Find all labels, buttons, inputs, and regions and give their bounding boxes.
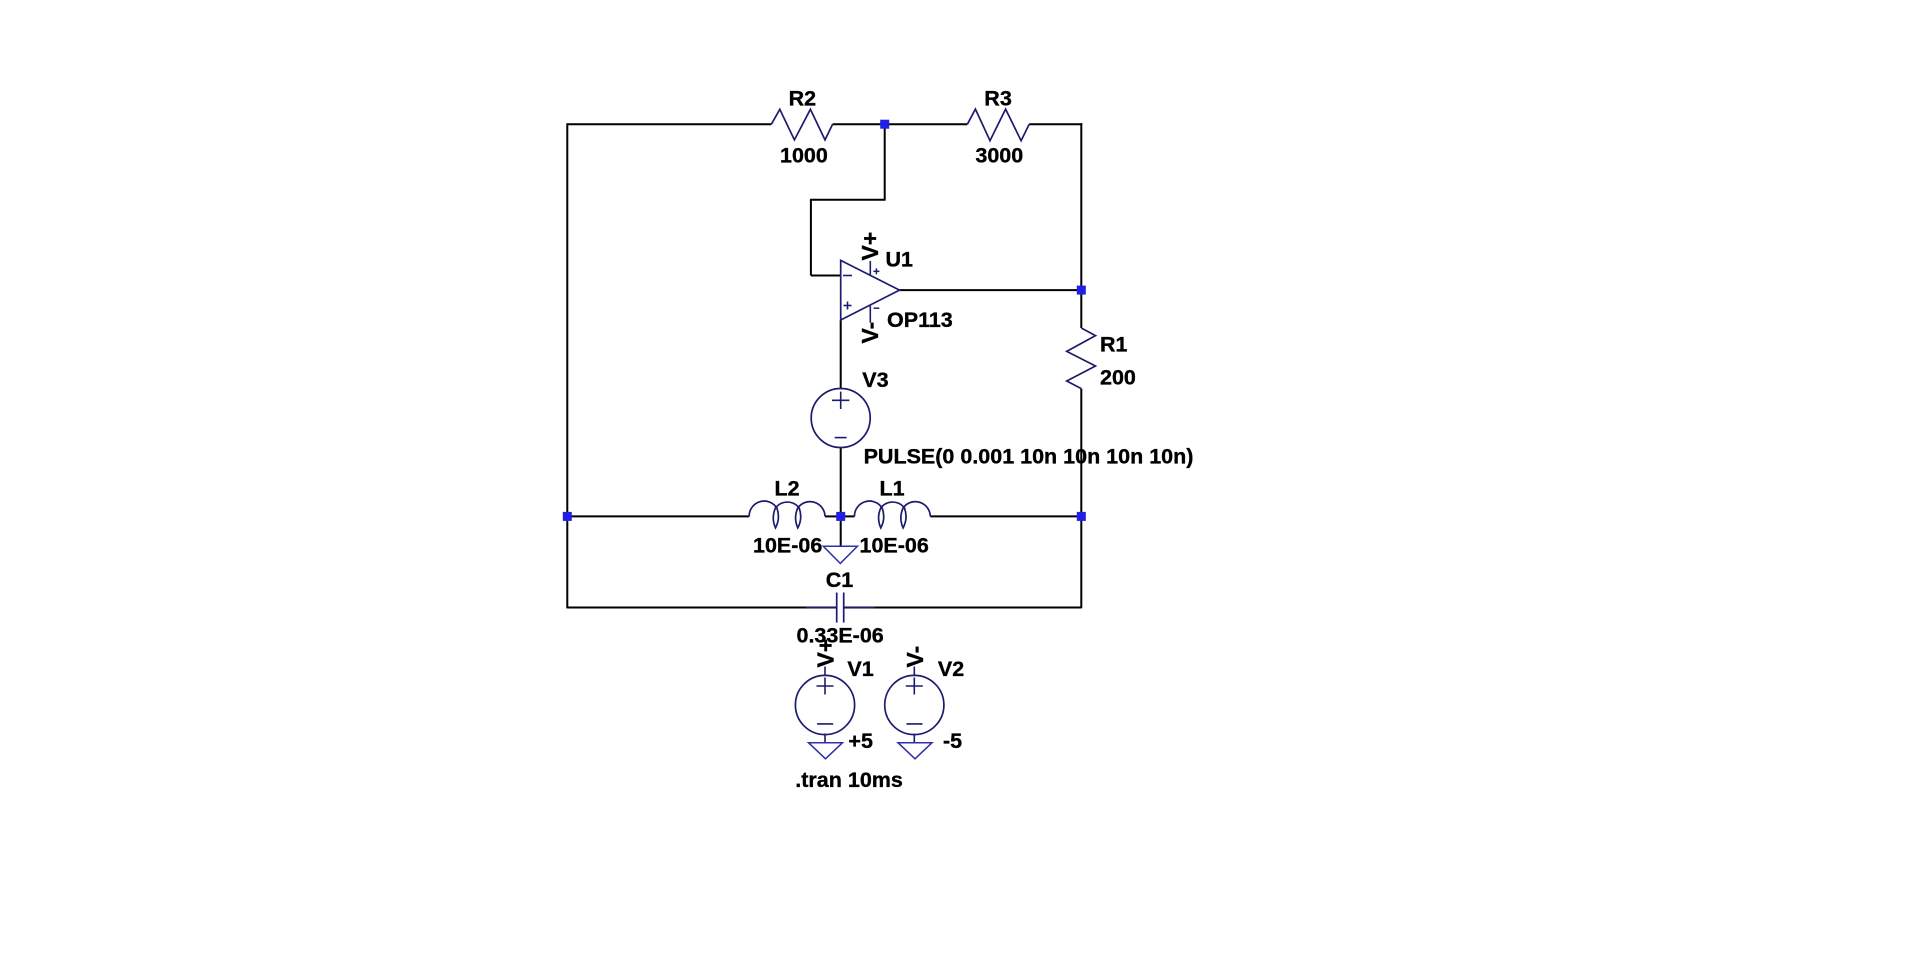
value -5 of V2 (943, 729, 962, 753)
label V+ rotated at V1 (813, 639, 839, 668)
svg-text:R1: R1 (1100, 332, 1128, 356)
svg-text:-5: -5 (943, 729, 962, 753)
V2 minus marker (906, 723, 922, 725)
value PULSE of V3 (864, 445, 1194, 469)
svg-text:V2: V2 (938, 657, 964, 681)
wire L1 to right rail (930, 515, 1081, 517)
resistor R3 (967, 109, 1029, 141)
label OP113 (887, 308, 953, 332)
wire inverting input vertical (810, 199, 812, 276)
wire inverting input horizontal into U1 (811, 275, 841, 277)
capacitor C1 left lead (806, 607, 837, 609)
label R2 (789, 86, 817, 110)
op-amp U1 triangle (841, 260, 900, 320)
capacitor C1 right lead (844, 607, 875, 609)
wire op-amp output to node B (900, 289, 1082, 291)
V1 plus marker (817, 678, 834, 695)
wire right vertical upper (1080, 123, 1082, 328)
label C1 (826, 568, 854, 592)
svg-text:L1: L1 (880, 477, 905, 501)
node B junction output-R1 (1077, 286, 1086, 295)
capacitor C1 plates (837, 593, 844, 623)
value 1000 of R2 (780, 144, 828, 168)
svg-text:U1: U1 (886, 248, 914, 272)
label L1 (880, 477, 905, 501)
svg-text:+5: +5 (848, 729, 873, 753)
V2 top pin (913, 667, 915, 677)
label V2 (938, 657, 964, 681)
voltage source V2 circle (885, 675, 944, 734)
wire top rail left segment (567, 123, 771, 125)
svg-text:V+: V+ (813, 639, 839, 668)
svg-text:3000: 3000 (975, 144, 1023, 168)
svg-text:V1: V1 (847, 657, 873, 681)
V3 minus marker (835, 437, 847, 439)
svg-text:200: 200 (1100, 366, 1136, 390)
spice directive .tran 10ms (795, 768, 903, 792)
voltage source V1 circle (795, 675, 854, 734)
wire bottom rail left of C1 (567, 607, 836, 609)
voltage source V3 circle (811, 389, 870, 448)
op-amp U1 non-inverting input marker (844, 302, 852, 310)
svg-text:V-: V- (857, 322, 883, 344)
wire V3 bottom to ground junction (840, 447, 842, 546)
label R3 (984, 86, 1012, 110)
V2 bottom pin (913, 734, 915, 743)
wire top rail middle segment (833, 123, 968, 125)
value 10E-06 of L2 (753, 534, 822, 558)
svg-text:V+: V+ (857, 232, 883, 261)
V1 minus marker (817, 723, 833, 725)
V1 top pin (824, 667, 826, 677)
op-amp U1 V- pin minus marker (874, 307, 880, 309)
svg-text:PULSE(0 0.001 10n 10n 10n 10n): PULSE(0 0.001 10n 10n 10n 10n) (864, 445, 1194, 469)
label V- rotated at U1 (857, 322, 883, 344)
wire U1 +input down to V3 (840, 320, 842, 389)
ground symbol under V1 (809, 743, 843, 759)
label V3 (862, 368, 888, 392)
value 200 of R1 (1100, 366, 1136, 390)
node D junction left rail-L2 (563, 512, 572, 521)
value 3000 of R3 (975, 144, 1023, 168)
node C junction L2-L1-V3-ground (836, 512, 845, 521)
V1 bottom pin (824, 734, 826, 743)
svg-text:R3: R3 (984, 86, 1012, 110)
node A junction R2-R3-feedback (880, 120, 889, 129)
V3 plus marker (832, 392, 849, 409)
op-amp U1 V- power pin (869, 306, 871, 323)
value 10E-06 of L1 (860, 534, 929, 558)
ground symbol under V2 (898, 743, 932, 759)
op-amp U1 V+ pin plus marker (873, 268, 879, 274)
svg-text:10E-06: 10E-06 (753, 534, 822, 558)
svg-text:L2: L2 (775, 477, 800, 501)
wire inverting feedback vertical from node A (884, 124, 886, 200)
wire left vertical rail (566, 123, 568, 608)
inductor L2 (749, 501, 825, 528)
label R1 (1100, 332, 1128, 356)
wire L2 to node C (825, 515, 841, 517)
value 0.33E-06 of C1 (797, 624, 884, 648)
svg-text:C1: C1 (826, 568, 854, 592)
label L2 (775, 477, 800, 501)
label U1 (886, 248, 914, 272)
svg-text:10E-06: 10E-06 (860, 534, 929, 558)
op-amp U1 V+ power pin (869, 261, 871, 275)
inductor L1 (854, 501, 930, 528)
V2 plus marker (906, 678, 923, 695)
wire middle rail left segment (567, 515, 749, 517)
svg-text:R2: R2 (789, 86, 817, 110)
wire top rail right segment (1029, 123, 1082, 125)
wire inverting feedback horizontal (811, 199, 886, 201)
op-amp U1 inverting input marker (843, 275, 852, 277)
svg-text:1000: 1000 (780, 144, 828, 168)
value +5 of V1 (848, 729, 873, 753)
svg-text:.tran 10ms: .tran 10ms (795, 768, 903, 792)
label V- rotated at V2 (902, 646, 928, 668)
wire node C to L1 (841, 515, 855, 517)
svg-text:0.33E-06: 0.33E-06 (797, 624, 884, 648)
label V+ rotated at U1 (857, 232, 883, 261)
svg-text:V-: V- (902, 646, 928, 668)
ground symbol center (823, 546, 857, 563)
svg-text:OP113: OP113 (887, 308, 953, 332)
resistor R2 (771, 109, 832, 140)
label V1 (847, 657, 873, 681)
resistor R1 (1067, 328, 1096, 389)
node E junction L1-right rail (1077, 512, 1086, 521)
svg-text:V3: V3 (862, 368, 888, 392)
wire bottom rail right of C1 (844, 607, 1082, 609)
wire right vertical lower (1080, 389, 1082, 609)
